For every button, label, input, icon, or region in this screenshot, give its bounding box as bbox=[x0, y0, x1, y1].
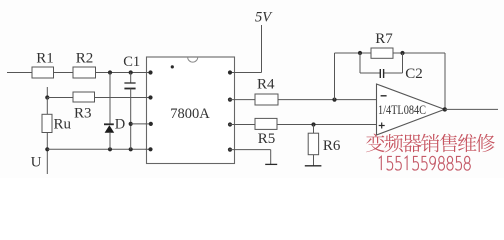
wire R6 top lead bbox=[313, 125, 315, 134]
pin 8 connection dot bbox=[228, 70, 232, 74]
pin 2 stub bbox=[146, 97, 151, 99]
wire pin7 to R4 bbox=[229, 99, 255, 101]
svg-text:D: D bbox=[115, 116, 125, 132]
node output bbox=[443, 107, 447, 111]
node C1 bottom bbox=[129, 147, 133, 151]
resistor Ru bbox=[42, 114, 52, 132]
wire input row A bbox=[7, 72, 151, 74]
wire Ru bottom to U terminal bbox=[46, 133, 48, 175]
svg-text:R3: R3 bbox=[74, 105, 92, 121]
svg-text:C1: C1 bbox=[123, 54, 140, 70]
svg-text:R6: R6 bbox=[323, 138, 341, 154]
IC notch bbox=[188, 57, 198, 62]
op-amp minus input bbox=[381, 95, 387, 97]
capacitor C2 bbox=[379, 69, 381, 78]
wire bottom row bbox=[47, 148, 150, 150]
resistor R1 bbox=[32, 67, 54, 78]
pin 7 connection dot bbox=[228, 98, 232, 102]
node feedback junction bbox=[332, 98, 336, 102]
wire Ru top bbox=[46, 98, 48, 115]
wire pin5 to ground bbox=[229, 149, 271, 151]
svg-text:U: U bbox=[31, 155, 42, 171]
svg-text:1/4TL084C: 1/4TL084C bbox=[378, 103, 426, 117]
node bottom left bbox=[45, 147, 49, 151]
resistor R4 bbox=[255, 94, 278, 105]
watermark text line 1 bbox=[366, 134, 495, 153]
svg-text:R1: R1 bbox=[36, 51, 54, 67]
wire diode branch upper bbox=[109, 73, 111, 125]
node diode bottom bbox=[108, 147, 112, 151]
wire stub above R3 node bbox=[46, 87, 48, 98]
wire R6 bottom lead bbox=[313, 155, 315, 166]
node after R2 bbox=[108, 70, 112, 74]
pin 3 stub bbox=[146, 123, 151, 125]
wire output bbox=[445, 108, 498, 110]
resistor R3 bbox=[73, 92, 95, 102]
pin 1 stub bbox=[146, 72, 151, 74]
svg-text:7800A: 7800A bbox=[170, 106, 210, 122]
ground R6 bbox=[305, 165, 322, 167]
wire R4 to op-amp bbox=[278, 99, 377, 101]
wire feedback right vertical bbox=[444, 53, 446, 109]
svg-text:R4: R4 bbox=[257, 76, 275, 92]
wire row B bbox=[47, 97, 150, 99]
node R7 left bbox=[358, 51, 362, 55]
resistor R6 bbox=[308, 133, 318, 155]
wire feedback left vertical bbox=[334, 53, 336, 100]
ground pin5 bbox=[265, 163, 277, 165]
watermark phone number bbox=[379, 156, 471, 170]
node R6 junction bbox=[311, 122, 315, 126]
wire pin6 to R5 bbox=[229, 124, 255, 126]
resistor R7 bbox=[371, 48, 393, 58]
resistor R2 bbox=[73, 67, 96, 78]
wire feedback top bbox=[335, 52, 446, 54]
node R7 right bbox=[400, 51, 404, 55]
IC pin1 marker bbox=[171, 65, 174, 68]
node C1 row C bbox=[129, 122, 133, 126]
svg-text:R5: R5 bbox=[258, 131, 276, 147]
svg-text:R7: R7 bbox=[375, 31, 393, 47]
wire C1 top lead bbox=[130, 73, 132, 84]
pin 4 stub bbox=[146, 148, 151, 150]
wire R5 to op-amp bbox=[277, 124, 377, 126]
svg-text:5V: 5V bbox=[255, 10, 273, 26]
node R3 left bbox=[45, 95, 49, 99]
wire 5V vertical bbox=[261, 25, 263, 73]
op-amp U2 1/4TL084C bbox=[377, 84, 445, 135]
svg-text:R2: R2 bbox=[76, 51, 94, 67]
capacitor C1 bbox=[124, 82, 135, 84]
diode D bbox=[104, 123, 114, 125]
node C1 top bbox=[129, 70, 133, 74]
resistor R5 bbox=[255, 118, 277, 129]
pin 5 connection dot bbox=[228, 148, 232, 152]
svg-text:C2: C2 bbox=[405, 66, 423, 82]
op-amp plus input bbox=[379, 125, 385, 127]
pin 6 connection dot bbox=[228, 122, 232, 126]
svg-text:Ru: Ru bbox=[54, 117, 72, 133]
wire C2 branch bbox=[359, 53, 361, 73]
IC U1 7800A body bbox=[147, 57, 235, 164]
wire pin8 to 5V bbox=[229, 72, 262, 74]
wire row C to pin 3 bbox=[131, 123, 151, 125]
